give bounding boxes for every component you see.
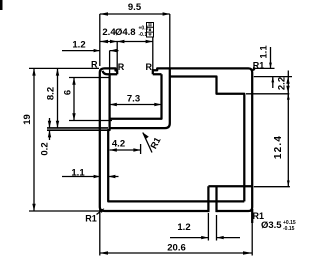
dim 6 lines — [69, 78, 112, 121]
svg-text:2.2: 2.2 — [277, 77, 288, 90]
R1 top right leader arrow — [252, 67, 255, 71]
svg-text:8.2: 8.2 — [46, 87, 57, 100]
svg-text:12.4: 12.4 — [273, 135, 284, 159]
2.4 arrows — [100, 40, 108, 43]
1.1 right arrows — [269, 63, 272, 69]
R1 bottom left leader arrow — [100, 208, 105, 213]
7.3 arrows — [110, 103, 117, 106]
svg-text:0.2: 0.2 — [40, 142, 51, 155]
dim 1.2 bottom lines — [170, 213, 240, 241]
19 arrows — [32, 68, 35, 75]
dim 1.1 right lines — [254, 47, 275, 88]
arrowheads — [32, 12, 289, 254]
dim 9.5 lines — [100, 14, 170, 68]
pocket cup (7.3 wide) inner bottom and right wall — [110, 74, 162, 119]
svg-text:R: R — [118, 62, 125, 72]
dim 1.1 left lines — [62, 176, 119, 178]
svg-text:R: R — [91, 60, 98, 70]
right wall extension below fillet — [251, 209, 253, 223]
dim 2.2 line — [287, 71, 289, 101]
dim 2.2 and 12.4 ext lines — [246, 77, 292, 187]
shelf edge at bottom right — [208, 185, 252, 187]
svg-text:R1: R1 — [85, 214, 97, 224]
svg-text:-0.15: -0.15 — [283, 226, 295, 232]
svg-text:6: 6 — [63, 90, 74, 95]
4.2 arrows — [110, 148, 117, 151]
dim 20.6 lines — [100, 209, 252, 256]
svg-text:20.6: 20.6 — [167, 243, 186, 254]
svg-text:1.1: 1.1 — [71, 168, 85, 179]
dim 7.3 line — [110, 104, 162, 106]
svg-text:19: 19 — [22, 114, 33, 125]
dim 2.4 and 4.8 line — [100, 37, 153, 70]
1.2 top arrows — [94, 49, 100, 52]
1.2 bottom arrows — [201, 236, 208, 239]
2.2 arrows — [286, 77, 289, 84]
20.6 arrows — [100, 251, 108, 254]
0.2 arrows — [48, 121, 51, 128]
inner cavity left wall with 0.2 step and inner bottom — [103, 71, 245, 202]
top wall underside, rib 2.2 deep and inner right wall — [170, 77, 245, 202]
svg-text:1.2: 1.2 — [72, 40, 85, 51]
svg-text:1.1: 1.1 — [259, 45, 270, 59]
svg-text:+0.1: +0.1 — [139, 26, 149, 32]
dim 19 lines — [29, 68, 100, 211]
4.8 arrows — [117, 40, 124, 43]
pocket cup outer bottom with R1 fillet and outer wall — [110, 68, 170, 128]
svg-text:R: R — [146, 62, 153, 72]
svg-text:Ø3.5: Ø3.5 — [261, 220, 282, 231]
dim 8.2 line — [57, 68, 59, 128]
leader R1 pocket — [143, 133, 152, 153]
svg-text:4.2: 4.2 — [112, 139, 125, 150]
svg-text:9.5: 9.5 — [128, 2, 142, 13]
svg-text:1.2: 1.2 — [177, 222, 190, 233]
6 arrows — [72, 78, 75, 85]
R1 pocket leader arrow — [143, 133, 149, 140]
slot 1.2 wide through bottom wall — [208, 186, 216, 212]
1.1 left arrows — [94, 175, 100, 178]
profile outer shell with top lips and bottom slot gap — [100, 68, 252, 211]
leader R1 top right — [252, 68, 255, 72]
dim 1.2 top lines — [62, 51, 119, 74]
svg-text:R1: R1 — [253, 60, 265, 70]
frame corner mark top-left — [0, 0, 3, 10]
leader R1 bottom left — [97, 210, 104, 215]
dim 12.4 line — [287, 94, 289, 187]
dim 0.2 lines — [47, 128, 108, 130]
gdt frame — [147, 23, 154, 38]
8.2 arrows — [56, 68, 59, 75]
dim 4.2 lines — [110, 144, 141, 154]
12.4 arrows — [287, 94, 290, 100]
svg-text:Ø4.8: Ø4.8 — [115, 27, 136, 38]
9.5 arrows — [100, 12, 108, 15]
svg-text:7.3: 7.3 — [127, 94, 140, 105]
